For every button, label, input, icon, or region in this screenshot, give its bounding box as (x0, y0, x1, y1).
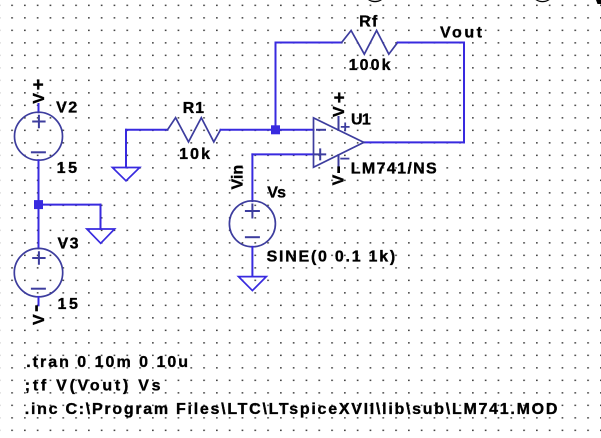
svg-text:LM741/NS: LM741/NS (351, 161, 438, 178)
svg-text:+: + (33, 75, 44, 96)
svg-text:.tran 0 10m 0 10u: .tran 0 10m 0 10u (26, 354, 190, 371)
wire: op-amp non-inverting input to Vs branch (252, 153, 313, 155)
op-amp plus power mark (342, 123, 349, 130)
svg-text:V: V (331, 106, 348, 117)
junction at R1/Rf/op-amp node (271, 125, 280, 134)
svg-text:V: V (31, 93, 48, 104)
wire: junction up to feedback (275, 43, 277, 130)
op-amp U1 triangle (314, 118, 364, 167)
op-amp V- power pin stub (338, 155, 340, 166)
ground flag at R1 left (112, 168, 139, 181)
svg-text:V: V (331, 174, 348, 185)
wire: down from R1-left corner to ground (125, 130, 127, 168)
Vs plus mark (246, 205, 259, 218)
svg-text:Vout: Vout (440, 25, 485, 42)
cropped heading glyph fragment 1 (368, 0, 382, 2)
wire: Rf right to Vout corner (398, 42, 464, 44)
net label V- below op-amp: rotated minus (337, 166, 340, 173)
wire: V+ flag stub above V2 (38, 104, 40, 112)
V3 minus mark (32, 288, 45, 290)
voltage source V3 circle (14, 248, 62, 296)
svg-text:10k: 10k (179, 146, 212, 163)
svg-text:.inc C:\Program Files\LTC\LTsp: .inc C:\Program Files\LTC\LTspiceXVII\li… (25, 401, 559, 418)
V2 minus mark (32, 151, 45, 153)
resistor Rf body (342, 31, 398, 55)
net label V- below V3: rotated minus (35, 305, 38, 311)
svg-text:Vs: Vs (267, 185, 286, 202)
ground flag for supplies (87, 229, 115, 243)
wire: op-amp output to Vout branch (364, 141, 464, 143)
wire: left of R1 horizontal (126, 129, 168, 131)
svg-text:SINE(0 0.1 1k): SINE(0 0.1 1k) (267, 248, 397, 265)
V3 plus mark (33, 252, 44, 263)
op-amp V+ power pin stub (338, 117, 340, 130)
svg-text:;tf V(Vout) Vs: ;tf V(Vout) Vs (25, 378, 164, 395)
svg-text:Vin: Vin (230, 165, 247, 190)
voltage source V2 circle (15, 112, 63, 160)
wire: top left horizontal to Rf (276, 42, 342, 44)
svg-text:V3: V3 (58, 235, 81, 252)
wire: V- flag stub below V3 (38, 297, 40, 305)
wire: down to Vs top (251, 154, 253, 201)
voltage source Vs circle (229, 201, 275, 247)
ground flag below Vs (239, 277, 267, 291)
svg-text:+: + (334, 88, 345, 109)
resistor R1 body (168, 118, 221, 142)
wire: down to supply ground (100, 205, 102, 229)
cropped heading glyph fragment 3 (596, 0, 601, 4)
V2 plus mark (33, 116, 44, 127)
svg-text:15: 15 (58, 296, 81, 313)
op-amp minus power mark (341, 158, 348, 160)
svg-text:R1: R1 (183, 100, 205, 117)
svg-text:100k: 100k (349, 57, 393, 74)
wire: Vs bottom to ground (251, 247, 253, 277)
svg-text:U1: U1 (351, 112, 371, 129)
op-amp inverting input mark (317, 129, 325, 131)
svg-text:15: 15 (57, 160, 80, 177)
wire: Vout corner down to output (463, 43, 465, 143)
svg-text:V: V (31, 314, 48, 325)
svg-text:V2: V2 (56, 100, 79, 117)
wire: junction right toward ground (39, 204, 101, 206)
wire: R1 right to op-amp inverting input (221, 129, 314, 131)
svg-text:Rf: Rf (359, 13, 378, 30)
wire: V2 bottom through junction to V3 top (38, 160, 40, 248)
cropped heading glyph fragment 2 (536, 0, 550, 2)
Vs minus mark (246, 236, 259, 238)
op-amp non-inverting input mark (315, 149, 325, 159)
junction between V2 and V3 (34, 200, 43, 209)
